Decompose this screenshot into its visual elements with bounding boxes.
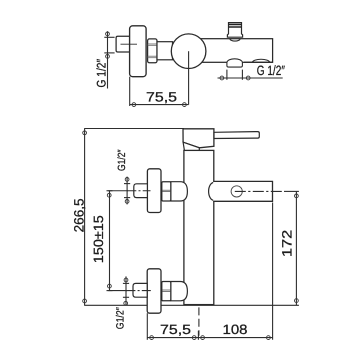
wire: spout centerline dash-dot bbox=[235, 190, 282, 192]
wire: stub centerline (top view inlet axis) bbox=[121, 43, 138, 45]
extension line: faucet top (266,5 upper reference) bbox=[84, 128, 184, 130]
wire: bottom inlet centerline dash-dot bbox=[126, 290, 151, 292]
bottom inlet connector dome (front view) bbox=[171, 282, 188, 301]
cartridge head cap (front view) bbox=[183, 129, 214, 148]
column centerline (front view, dashed) bbox=[198, 148, 200, 336]
top inlet G1/2 stub (front view) bbox=[134, 184, 148, 198]
dimension G1/2" top inlet (front view) bbox=[116, 149, 130, 204]
hex nut (top view) bbox=[148, 39, 157, 63]
spout body (front view) bbox=[213, 181, 272, 201]
tub outlet dome on bar bottom (top view) bbox=[252, 59, 269, 62]
dimension G 1/2" (top view left) bbox=[95, 31, 115, 88]
extension line: faucet bottom (266,5 / 172 lower reference) bbox=[84, 304, 299, 306]
dimension 150±15 (front view left) bbox=[91, 191, 128, 291]
top inlet hex nut (front view) bbox=[162, 182, 171, 201]
svg-text:75,5: 75,5 bbox=[146, 89, 177, 104]
dimension 75,5 / 108 (front view bottom) bbox=[147, 203, 272, 340]
spout aerator circle (front view) bbox=[231, 186, 242, 197]
svg-text:G1/2″: G1/2″ bbox=[114, 307, 126, 329]
wire: bar bottom edge re-draw bbox=[244, 61, 273, 63]
connecting cylinder (top view) bbox=[157, 42, 173, 60]
wire: top inlet centerline dash-dot bbox=[127, 190, 150, 192]
body column (front view) bbox=[184, 150, 214, 304]
svg-text:172: 172 bbox=[280, 230, 295, 257]
valve body circle (top view) bbox=[171, 34, 206, 69]
top inlet wall flange (front view) bbox=[147, 169, 161, 213]
wire: circle center vertical axis down to dimension bbox=[188, 51, 190, 104]
diverter knob (top view) bbox=[227, 23, 242, 38]
svg-text:G 1/2″: G 1/2″ bbox=[257, 63, 285, 78]
top inlet connector dome (front view) bbox=[171, 182, 188, 201]
dimension 172 (front view right) bbox=[280, 191, 299, 305]
svg-text:150±15: 150±15 bbox=[91, 215, 106, 263]
wall flange escutcheon (top view) bbox=[130, 26, 147, 77]
svg-text:108: 108 bbox=[223, 322, 248, 337]
dimension G 1/2" (top view bottom right) bbox=[218, 63, 286, 80]
spout left cap dome (front view) bbox=[209, 183, 214, 201]
G1/2 inlet stub (top view) bbox=[116, 36, 130, 52]
dimension 266,5 (front view far left) bbox=[71, 129, 86, 306]
svg-text:266,5: 266,5 bbox=[71, 198, 86, 232]
shower outlet boss under bar (top view) bbox=[227, 59, 243, 67]
svg-text:75,5: 75,5 bbox=[160, 322, 191, 337]
svg-text:G1/2″: G1/2″ bbox=[116, 149, 128, 171]
diverter knob dome seat (top view) bbox=[230, 39, 240, 41]
bottom inlet wall flange (front view) bbox=[147, 269, 161, 313]
bottom inlet G1/2 stub (front view) bbox=[133, 283, 147, 297]
lever handle (front view) bbox=[214, 132, 259, 139]
bottom inlet hex nut (front view) bbox=[162, 282, 171, 301]
head collar wedge (front view) bbox=[183, 142, 199, 150]
dimension G1/2" bottom inlet (front view) bbox=[114, 276, 129, 329]
dimension 75,5 (top view) bbox=[130, 77, 189, 107]
svg-text:G 1/2″: G 1/2″ bbox=[95, 58, 109, 87]
horizontal body bar (top view) bbox=[190, 39, 273, 63]
